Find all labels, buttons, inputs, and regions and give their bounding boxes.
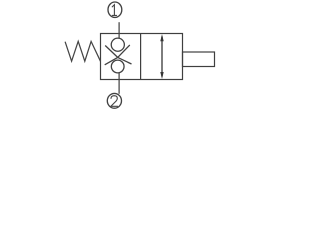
valve seat upper-left bbox=[105, 46, 118, 58]
valve seat lower-left bbox=[105, 57, 118, 64]
solenoid rectangle (right) bbox=[183, 52, 215, 67]
check valve ball (bottom) bbox=[111, 60, 124, 73]
spring (left, zigzag) bbox=[65, 41, 100, 61]
check valve ball (top) bbox=[111, 38, 124, 51]
arrowhead down bbox=[160, 72, 163, 79]
cell divider line bbox=[140, 34, 142, 80]
wire body to port2 bbox=[118, 73, 120, 94]
main valve body box (left position cell) bbox=[101, 34, 183, 80]
port circle 2 bbox=[107, 93, 121, 108]
valve seat upper-right bbox=[118, 45, 130, 57]
arrowhead up bbox=[160, 34, 163, 41]
label 2 bbox=[111, 96, 118, 107]
valve seat lower-right bbox=[118, 57, 132, 64]
label 1 bbox=[112, 5, 116, 16]
port circle 1 bbox=[108, 2, 122, 17]
flow arrow line in right cell bbox=[161, 37, 163, 77]
wire port1 to body bbox=[118, 22, 120, 38]
